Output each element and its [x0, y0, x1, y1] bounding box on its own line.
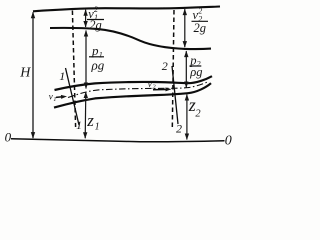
svg-text:1: 1	[59, 69, 65, 83]
svg-text:p: p	[91, 43, 99, 58]
svg-text:0: 0	[225, 134, 232, 149]
svg-text:2: 2	[162, 59, 168, 73]
svg-text:ρg: ρg	[189, 65, 202, 79]
svg-text:z: z	[86, 111, 94, 130]
svg-text:2: 2	[94, 5, 98, 14]
svg-text:2: 2	[176, 121, 182, 135]
svg-text:0: 0	[5, 130, 12, 145]
svg-text:2: 2	[198, 6, 202, 15]
svg-text:2g: 2g	[89, 18, 102, 32]
svg-text:v: v	[49, 92, 53, 102]
svg-text:2g: 2g	[194, 21, 207, 35]
svg-text:1: 1	[53, 96, 56, 103]
svg-text:ρg: ρg	[91, 57, 105, 72]
svg-text:2: 2	[195, 108, 201, 119]
svg-text:1: 1	[95, 122, 100, 133]
svg-text:1: 1	[76, 118, 82, 132]
svg-text:H: H	[19, 66, 31, 81]
svg-text:v: v	[148, 79, 152, 89]
